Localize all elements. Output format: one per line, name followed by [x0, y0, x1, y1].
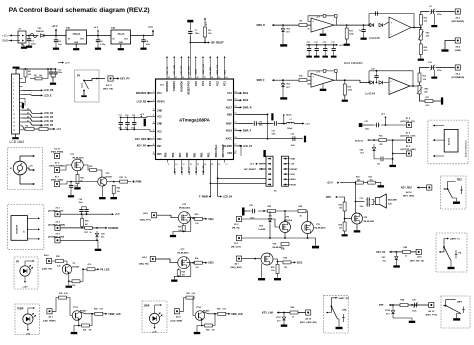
svg-text:FM4148: FM4148 — [36, 30, 44, 33]
svg-text:KEY_LNA: KEY_LNA — [173, 65, 176, 75]
svg-text:5: 5 — [153, 122, 154, 124]
svg-text:6: 6 — [153, 130, 154, 132]
svg-text:A2 14: A2 14 — [406, 191, 412, 194]
svg-text:78L05: 78L05 — [117, 32, 125, 36]
svg-text:SIG2: SIG2 — [243, 92, 249, 95]
svg-text:(ACS712_+5V): (ACS712_+5V) — [401, 120, 415, 123]
svg-text:R42: R42 — [217, 308, 220, 311]
svg-text:(KEY_RES): (KEY_RES) — [403, 196, 414, 198]
svg-text:100n: 100n — [195, 33, 200, 35]
svg-text:IRLML2803: IRLML2803 — [315, 227, 327, 229]
svg-text:P4_LED: P4_LED — [100, 268, 109, 271]
svg-text:PD3: PD3 — [208, 152, 211, 157]
svg-text:100n: 100n — [272, 133, 276, 135]
svg-text:R22: R22 — [339, 204, 342, 206]
svg-text:SCK: SCK — [291, 174, 296, 176]
svg-text:(LED_SWR): (LED_SWR) — [171, 320, 183, 322]
svg-text:RESET: RESET — [291, 169, 299, 171]
svg-text:INT0/PD2: INT0/PD2 — [166, 81, 169, 92]
svg-text:+5 V: +5 V — [148, 27, 153, 29]
svg-text:R8: R8 — [34, 75, 36, 77]
svg-text:100: 100 — [195, 267, 198, 269]
svg-text:5V1: 5V1 — [361, 153, 364, 155]
svg-text:PB7: PB7 — [157, 146, 162, 148]
svg-text:DS18B20: DS18B20 — [136, 92, 147, 95]
svg-text:R27: R27 — [85, 232, 88, 234]
svg-text:9: 9 — [168, 164, 169, 166]
svg-text:LCD 16x2: LCD 16x2 — [10, 140, 25, 144]
svg-text:ACS712: ACS712 — [448, 138, 451, 145]
svg-text:5V1: 5V1 — [101, 237, 104, 239]
svg-text:IRLML6402: IRLML6402 — [179, 207, 191, 210]
svg-text:LNA: LNA — [342, 309, 347, 312]
svg-text:32: 32 — [168, 77, 170, 79]
svg-text:+12 V: +12 V — [327, 182, 334, 185]
svg-text:C23: C23 — [74, 186, 77, 188]
svg-text:+12V: +12V — [25, 333, 31, 335]
svg-text:18: 18 — [234, 137, 236, 139]
svg-text:13: 13 — [13, 126, 15, 128]
svg-text:SIG2: SIG2 — [208, 263, 214, 265]
svg-text:L1: L1 — [290, 119, 292, 121]
svg-text:PB0: PB0 — [186, 152, 189, 157]
svg-text:PC3: PC3 — [209, 81, 212, 86]
svg-text:C19: C19 — [132, 115, 135, 117]
svg-text:LCD_D6: LCD_D6 — [196, 166, 198, 175]
svg-text:ADC6: ADC6 — [226, 130, 233, 133]
svg-text:VCC: VCC — [157, 132, 162, 134]
svg-text:(LED_TEMP): (LED_TEMP) — [43, 320, 56, 322]
svg-text:DA1: DA1 — [66, 27, 71, 30]
svg-text:R43: R43 — [206, 328, 209, 331]
svg-text:PC0: PC0 — [228, 100, 233, 102]
svg-text:C15: C15 — [323, 42, 326, 44]
svg-text:22: 22 — [234, 106, 236, 108]
svg-text:9: 9 — [13, 110, 14, 112]
svg-text:+5V: +5V — [291, 164, 295, 166]
svg-text:DS18B20: DS18B20 — [17, 224, 19, 234]
svg-text:4: 4 — [13, 89, 14, 92]
svg-text:ACS712 MODULE: ACS712 MODULE — [465, 140, 468, 157]
svg-text:C30: C30 — [371, 68, 374, 70]
svg-text:PB4: PB4 — [228, 152, 233, 155]
svg-text:C10: C10 — [58, 69, 61, 71]
svg-text:(PA_IN): (PA_IN) — [232, 227, 240, 230]
svg-text:(ACS712_OUT): (ACS712_OUT) — [401, 134, 416, 137]
svg-text:KEY_P4: KEY_P4 — [166, 66, 169, 75]
svg-text:(DS18B20_DATA): (DS18B20_DATA) — [48, 223, 65, 226]
svg-text:A2 6: A2 6 — [44, 254, 49, 257]
svg-text:SPK: SPK — [326, 196, 331, 199]
svg-text:GND: GND — [74, 42, 79, 44]
svg-text:PD5: PD5 — [165, 152, 168, 157]
svg-text:LCD_E: LCD_E — [44, 94, 52, 97]
svg-text:1n4148: 1n4148 — [365, 92, 375, 96]
svg-text:12V: 12V — [388, 203, 392, 205]
svg-text:PD5: PD5 — [157, 154, 162, 156]
svg-text:BC847: BC847 — [73, 265, 81, 268]
svg-text:+5 V: +5 V — [140, 114, 145, 116]
svg-text:MOSI: MOSI — [291, 184, 297, 186]
svg-text:ADC5: ADC5 — [195, 68, 198, 74]
svg-text:X1 10: X1 10 — [54, 149, 60, 151]
svg-text:R20: R20 — [80, 177, 83, 179]
svg-text:7: 7 — [153, 137, 154, 139]
svg-text:VT11: VT11 — [73, 307, 79, 309]
svg-text:29: 29 — [189, 77, 191, 79]
svg-text:GND: GND — [227, 114, 232, 116]
svg-text:PB2: PB2 — [201, 152, 204, 157]
svg-text:C13: C13 — [314, 42, 317, 44]
svg-text:5: 5 — [13, 94, 14, 96]
svg-text:3: 3 — [13, 86, 14, 88]
svg-text:IRLML2803: IRLML2803 — [364, 221, 375, 223]
svg-text:TEMP_LED: TEMP_LED — [203, 63, 205, 74]
svg-text:1n4148: 1n4148 — [258, 228, 266, 231]
svg-text:A2 10: A2 10 — [305, 317, 312, 320]
svg-text:100: 100 — [339, 208, 342, 210]
svg-text:X5-1: X5-1 — [455, 18, 460, 20]
svg-text:LCD_D5: LCD_D5 — [189, 166, 191, 175]
svg-text:AREF: AREF — [226, 123, 233, 126]
svg-text:100n: 100n — [437, 14, 442, 16]
svg-text:RES: RES — [457, 180, 462, 182]
svg-text:SWR: SWR — [144, 306, 150, 308]
svg-text:KEY_PA: KEY_PA — [376, 251, 385, 254]
svg-text:21: 21 — [234, 113, 236, 115]
svg-text:R23: R23 — [85, 221, 88, 223]
svg-text:KEY_RES: KEY_RES — [401, 187, 412, 189]
svg-text:P4_LED: P4_LED — [209, 66, 212, 74]
svg-text:0.33µ: 0.33µ — [100, 44, 106, 46]
svg-text:LCD_RS: LCD_RS — [44, 89, 54, 92]
svg-text:9: 9 — [153, 152, 154, 154]
svg-text:2: 2 — [13, 82, 14, 84]
svg-text:11: 11 — [13, 118, 15, 120]
svg-text:AVCC: AVCC — [286, 113, 292, 116]
svg-text:BC847: BC847 — [106, 175, 113, 178]
svg-text:A2 11: A2 11 — [106, 84, 112, 87]
svg-text:SWR_R: SWR_R — [257, 25, 266, 27]
svg-text:SWR_F: SWR_F — [257, 80, 266, 82]
svg-text:+5 V: +5 V — [305, 124, 310, 126]
svg-text:2: 2 — [153, 100, 154, 102]
svg-text:F_PWM: F_PWM — [199, 195, 208, 198]
svg-text:100n: 100n — [118, 128, 122, 130]
svg-text:15: 15 — [211, 164, 213, 166]
svg-text:(GND): (GND) — [455, 50, 462, 52]
svg-text:23: 23 — [234, 98, 236, 100]
svg-text:0.33µ: 0.33µ — [74, 189, 79, 191]
svg-text:+12 V: +12 V — [52, 26, 59, 28]
svg-text:PA Control Board schematic dia: PA Control Board schematic diagram (REV.… — [9, 7, 150, 14]
svg-text:+5 V: +5 V — [115, 214, 120, 216]
svg-text:+6 V: +6 V — [94, 27, 99, 29]
svg-text:+5 V: +5 V — [56, 129, 61, 131]
svg-text:PB6/XTAL1: PB6/XTAL1 — [215, 144, 218, 157]
svg-text:R21: R21 — [89, 166, 92, 168]
svg-text:F_PWM: F_PWM — [133, 182, 141, 184]
svg-text:BC847: BC847 — [203, 309, 210, 312]
svg-text:100: 100 — [284, 267, 287, 269]
svg-text:R25: R25 — [178, 227, 181, 229]
svg-text:1: 1 — [13, 78, 14, 80]
svg-text:19: 19 — [234, 129, 236, 131]
svg-text:LCD_SY: LCD_SY — [243, 145, 253, 148]
svg-text:SIG2: SIG2 — [297, 261, 303, 264]
svg-text:D7: D7 — [27, 120, 29, 122]
svg-text:(RECEIVED): (RECEIVED) — [451, 21, 464, 23]
svg-text:LCD_D4: LCD_D4 — [44, 112, 54, 115]
svg-text:R41: R41 — [83, 328, 86, 331]
svg-text:100n: 100n — [360, 206, 364, 208]
svg-text:PB1: PB1 — [193, 152, 196, 157]
svg-text:A2 12: A2 12 — [428, 310, 435, 313]
svg-text:(SEQ_PTT): (SEQ_PTT) — [140, 220, 151, 222]
svg-text:R19: R19 — [369, 177, 372, 179]
svg-text:14: 14 — [13, 129, 15, 132]
svg-text:KEY_P4: KEY_P4 — [120, 77, 130, 80]
svg-text:10: 10 — [175, 164, 177, 166]
svg-text:1k0: 1k0 — [370, 179, 373, 181]
svg-text:SWR_LED: SWR_LED — [203, 165, 205, 175]
svg-text:UART_RX: UART_RX — [339, 297, 350, 300]
svg-text:D5: D5 — [27, 112, 29, 114]
svg-text:100: 100 — [195, 223, 198, 225]
svg-text:ATmega168PA: ATmega168PA — [179, 117, 211, 122]
svg-text:8: 8 — [153, 144, 154, 146]
svg-text:LCD_D4: LCD_D4 — [223, 195, 233, 198]
svg-text:D6: D6 — [27, 116, 29, 118]
svg-text:3: 3 — [153, 109, 154, 111]
svg-text:UART_Tx: UART_Tx — [450, 238, 461, 241]
svg-text:6k8: 6k8 — [308, 84, 311, 86]
svg-text:8: 8 — [13, 106, 14, 108]
svg-text:LCD_D4: LCD_D4 — [181, 166, 184, 175]
svg-text:IRLML2803: IRLML2803 — [273, 247, 285, 249]
svg-text:X1 9: X1 9 — [55, 163, 60, 165]
svg-text:C31: C31 — [377, 164, 380, 166]
svg-text:(ACS712_GND): (ACS712_GND) — [401, 148, 416, 151]
svg-text:PC2: PC2 — [216, 81, 219, 86]
svg-text:X1 7: X1 7 — [55, 177, 60, 179]
svg-text:100n: 100n — [259, 125, 263, 127]
svg-text:R38: R38 — [59, 293, 62, 295]
svg-text:12: 12 — [13, 122, 15, 124]
svg-text:17: 17 — [234, 144, 236, 146]
svg-text:+5 V: +5 V — [381, 114, 386, 116]
svg-text:26: 26 — [211, 77, 213, 79]
svg-text:(FORWARD): (FORWARD) — [451, 76, 464, 79]
svg-text:+12V: +12V — [152, 331, 158, 333]
svg-text:1k: 1k — [308, 29, 310, 31]
svg-text:R41: R41 — [187, 292, 190, 295]
svg-text:LCD_RS: LCD_RS — [137, 100, 147, 103]
svg-text:VCC: VCC — [157, 117, 162, 119]
svg-text:12: 12 — [190, 164, 192, 166]
svg-text:SIG2: SIG2 — [208, 219, 214, 221]
svg-text:1N4148: 1N4148 — [369, 36, 380, 40]
svg-text:10n: 10n — [125, 128, 128, 130]
svg-text:30: 30 — [182, 77, 184, 79]
svg-text:DA3 LM324D: DA3 LM324D — [344, 61, 363, 65]
svg-text:28: 28 — [197, 77, 199, 79]
svg-text:PC3: PC3 — [157, 93, 162, 95]
svg-text:(KEY_PTT): (KEY_PTT) — [426, 314, 438, 316]
svg-text:X5-3: X5-3 — [455, 74, 460, 76]
svg-text:KEY_PTT: KEY_PTT — [181, 65, 183, 75]
svg-text:C20: C20 — [272, 130, 275, 132]
svg-text:100n: 100n — [437, 70, 442, 72]
svg-text:7: 7 — [13, 102, 14, 104]
svg-text:DS18B20: DS18B20 — [108, 228, 119, 230]
svg-text:27: 27 — [204, 77, 206, 79]
svg-text:100n: 100n — [31, 44, 36, 46]
svg-text:6: 6 — [13, 98, 14, 100]
svg-text:GND: GND — [291, 158, 296, 160]
svg-text:1: 1 — [153, 91, 154, 93]
svg-text:ISP_RESET: ISP_RESET — [244, 169, 257, 171]
svg-text:R18: R18 — [356, 177, 359, 179]
svg-text:C22: C22 — [291, 134, 294, 136]
svg-text:PD4/T0: PD4/T0 — [157, 101, 165, 104]
svg-text:LCD_E: LCD_E — [175, 168, 177, 175]
svg-text:16: 16 — [218, 164, 220, 166]
svg-text:100n: 100n — [146, 44, 151, 46]
svg-text:17: 17 — [225, 164, 227, 166]
svg-text:BUZZER: BUZZER — [388, 200, 397, 202]
svg-text:PTT: PTT — [458, 302, 463, 304]
svg-text:+5 V: +5 V — [250, 164, 255, 166]
svg-text:R40: R40 — [94, 308, 97, 311]
svg-text:TEMP_LED: TEMP_LED — [108, 314, 121, 316]
svg-text:RESET/PC6: RESET/PC6 — [188, 81, 191, 95]
svg-text:BC847: BC847 — [80, 309, 87, 312]
svg-text:(FAN_POWER): (FAN_POWER) — [49, 165, 65, 168]
svg-text:DA2: DA2 — [111, 27, 116, 30]
svg-text:SWR_F: SWR_F — [243, 130, 252, 133]
svg-text:(FAN_PWM): (FAN_PWM) — [51, 151, 64, 154]
svg-text:C17: C17 — [118, 115, 121, 117]
svg-text:100µ: 100µ — [131, 128, 135, 130]
svg-text:+12V: +12V — [22, 287, 28, 289]
svg-text:D4: D4 — [27, 108, 29, 111]
svg-text:ADC7: ADC7 — [226, 106, 233, 109]
svg-text:20: 20 — [234, 122, 236, 124]
svg-text:(KEY_P4): (KEY_P4) — [103, 88, 113, 91]
svg-text:KEY_PA: KEY_PA — [137, 145, 147, 148]
svg-text:SWR_LED: SWR_LED — [231, 314, 243, 316]
svg-text:SWR_R: SWR_R — [243, 106, 252, 109]
svg-text:C11: C11 — [307, 42, 310, 44]
svg-text:11: 11 — [183, 164, 185, 166]
svg-text:GND: GND — [119, 42, 124, 44]
svg-text:KEY_RES: KEY_RES — [135, 138, 147, 141]
svg-text:IRLML6402: IRLML6402 — [178, 251, 190, 254]
svg-text:13: 13 — [197, 164, 199, 166]
svg-text:AVCC: AVCC — [226, 138, 233, 141]
svg-text:KEY_LNA: KEY_LNA — [262, 311, 273, 314]
svg-text:PD7: PD7 — [179, 152, 182, 157]
svg-text:(FAN_GND): (FAN_GND) — [51, 179, 63, 182]
svg-text:+5 V: +5 V — [339, 45, 344, 47]
svg-text:C21: C21 — [365, 121, 368, 123]
svg-text:SIG3: SIG3 — [243, 99, 249, 102]
svg-text:VT10: VT10 — [196, 307, 202, 309]
svg-text:X5-2: X5-2 — [455, 47, 460, 49]
svg-text:RXD/PD0: RXD/PD0 — [180, 81, 183, 92]
svg-text:LCD_D5: LCD_D5 — [44, 116, 54, 119]
svg-text:470: 470 — [380, 143, 383, 146]
svg-text:(DS18B20_GND): (DS18B20_GND) — [48, 237, 64, 239]
svg-text:(SEQ_ANT): (SEQ_ANT) — [231, 266, 243, 269]
svg-text:TEMP: TEMP — [17, 309, 24, 311]
svg-text:C29: C29 — [360, 198, 363, 200]
svg-text:PTT: PTT — [379, 304, 384, 307]
svg-text:GND: GND — [157, 111, 162, 113]
svg-text:31: 31 — [175, 77, 177, 79]
svg-text:+12 v: +12 v — [2, 34, 9, 38]
svg-text:R23: R23 — [120, 177, 123, 179]
svg-text:MISO: MISO — [291, 179, 297, 181]
svg-text:C18: C18 — [125, 115, 128, 117]
svg-text:VD5: VD5 — [101, 233, 105, 235]
svg-text:(LED_P4): (LED_P4) — [42, 267, 52, 270]
svg-text:R29: R29 — [182, 272, 185, 274]
svg-text:(KEY_PA / TX): (KEY_PA / TX) — [410, 260, 424, 263]
svg-text:560: 560 — [357, 179, 360, 181]
svg-text:(DS18B20_+5V): (DS18B20_+5V) — [48, 211, 64, 213]
svg-text:PD6: PD6 — [172, 152, 175, 157]
svg-text:(PA_OUT): (PA_OUT) — [231, 246, 241, 249]
svg-text:SWR_LED: SWR_LED — [217, 64, 219, 74]
svg-text:TXD/PD1: TXD/PD1 — [173, 81, 176, 92]
svg-text:16: 16 — [234, 151, 236, 153]
svg-text:U2: U2 — [24, 231, 26, 233]
svg-text:C17: C17 — [331, 42, 334, 44]
svg-text:(KEY_LNA / RA): (KEY_LNA / RA) — [300, 321, 317, 324]
svg-text:GND: GND — [2, 39, 8, 43]
svg-text:78M06: 78M06 — [72, 32, 80, 36]
svg-text:(SEQ_PA): (SEQ_PA) — [139, 262, 149, 265]
svg-text:LCD_D7: LCD_D7 — [44, 124, 54, 127]
svg-text:LCD_D6: LCD_D6 — [44, 120, 54, 123]
svg-text:ACS712: ACS712 — [355, 139, 364, 142]
svg-text:100µH: 100µH — [287, 128, 293, 130]
svg-text:PC1: PC1 — [228, 93, 233, 95]
svg-text:10: 10 — [13, 114, 15, 116]
svg-text:+5 V: +5 V — [65, 63, 70, 65]
svg-text:PC5: PC5 — [195, 81, 198, 86]
svg-text:GND: GND — [157, 124, 162, 126]
svg-text:4k7: 4k7 — [85, 223, 88, 226]
svg-text:VD10: VD10 — [385, 310, 391, 312]
svg-text:PC4: PC4 — [202, 81, 205, 86]
svg-text:25: 25 — [218, 77, 220, 79]
svg-text:ISP_RESET: ISP_RESET — [211, 42, 224, 44]
svg-text:PC1: PC1 — [224, 81, 227, 86]
svg-text:PB6: PB6 — [157, 139, 162, 141]
svg-text:PB7/XTAL2: PB7/XTAL2 — [222, 144, 225, 157]
